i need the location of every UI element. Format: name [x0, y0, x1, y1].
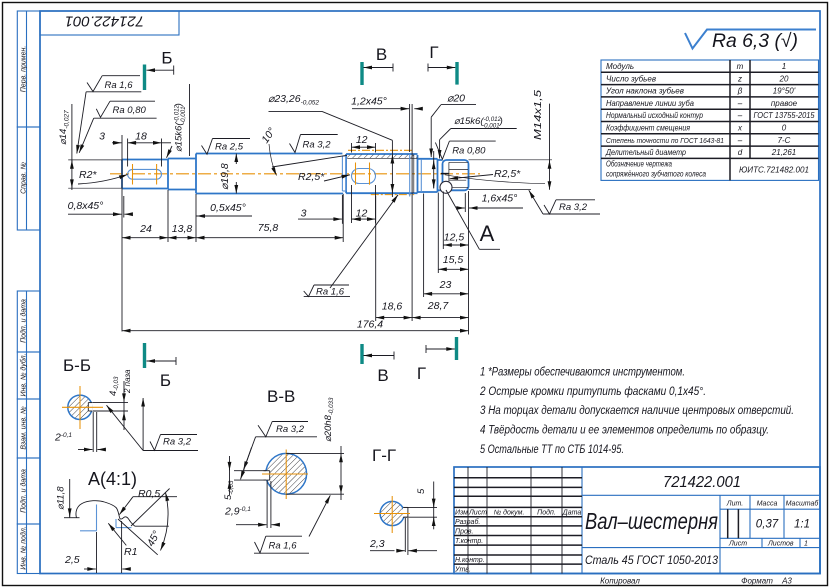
svg-text:Ra 3,2: Ra 3,2: [276, 424, 305, 435]
svg-text:R2,5*: R2,5*: [298, 171, 325, 183]
svg-text:7-С: 7-С: [778, 136, 791, 145]
svg-text:А3: А3: [781, 577, 792, 586]
svg-text:Г: Г: [429, 43, 438, 62]
svg-text:Лист: Лист: [468, 510, 487, 517]
svg-text:R0,5: R0,5: [138, 488, 160, 500]
svg-text:⌀20: ⌀20: [447, 93, 465, 105]
svg-text:Число зубьев: Число зубьев: [606, 74, 656, 83]
svg-text:721422.001: 721422.001: [663, 474, 741, 491]
svg-text:23: 23: [439, 279, 452, 291]
svg-text:Дата: Дата: [562, 510, 582, 517]
svg-text:Инв. № подл.: Инв. № подл.: [20, 526, 28, 569]
svg-text:R1: R1: [124, 546, 137, 558]
svg-text:Масса: Масса: [757, 501, 778, 508]
svg-text:75,8: 75,8: [258, 222, 279, 234]
svg-text:⌀11,8: ⌀11,8: [56, 486, 67, 510]
svg-text:⌀19,8: ⌀19,8: [219, 163, 231, 190]
svg-text:19°50': 19°50': [773, 87, 796, 96]
svg-text:Делительный диаметр: Делительный диаметр: [605, 148, 686, 157]
svg-text:2,5: 2,5: [64, 554, 80, 566]
svg-text:Формат: Формат: [741, 577, 773, 586]
svg-text:13,8: 13,8: [172, 223, 193, 235]
svg-text:β: β: [737, 87, 743, 96]
svg-text:Ra 1,6: Ra 1,6: [316, 287, 345, 298]
svg-text:1 *Размеры обеспечиваются инс: 1 *Размеры обеспечиваются инструментом.: [480, 367, 685, 379]
svg-text:15,5: 15,5: [443, 254, 464, 266]
svg-text:m: m: [737, 62, 744, 71]
svg-text:0: 0: [782, 124, 787, 133]
svg-text:Модуль: Модуль: [606, 62, 634, 71]
svg-text:ЮИТС.721482.001: ЮИТС.721482.001: [739, 166, 809, 175]
svg-text:R2*: R2*: [79, 169, 97, 181]
svg-text:1: 1: [782, 62, 786, 71]
svg-text:Б-Б: Б-Б: [63, 356, 91, 375]
svg-text:Вал–шестерня: Вал–шестерня: [585, 508, 718, 534]
svg-text:Н.контр.: Н.контр.: [455, 557, 485, 564]
svg-text:Угол наклона зубьев: Угол наклона зубьев: [605, 87, 684, 96]
svg-text:Ra 3,2: Ra 3,2: [303, 140, 332, 151]
svg-text:А: А: [480, 221, 495, 246]
svg-text:1,2х45°: 1,2х45°: [351, 96, 387, 108]
svg-text:Обозначение чертежа: Обозначение чертежа: [606, 160, 672, 169]
svg-text:Ra 1,6: Ra 1,6: [269, 541, 298, 552]
svg-text:Перв. примен.: Перв. примен.: [21, 46, 28, 93]
svg-text:–: –: [737, 136, 743, 145]
svg-text:5: 5: [416, 488, 427, 494]
svg-text:Изм: Изм: [455, 510, 468, 517]
svg-text:5 Остальные ТТ по СТБ 1014-95: 5 Остальные ТТ по СТБ 1014-95.: [480, 444, 624, 456]
svg-text:Ra 6,3 (√): Ra 6,3 (√): [712, 31, 798, 52]
svg-text:Б: Б: [161, 49, 172, 68]
svg-text:Справ. №: Справ. №: [21, 162, 28, 194]
svg-text:правое: правое: [771, 99, 798, 108]
svg-text:4 Твёрдость детали и ее элеме: 4 Твёрдость детали и ее элементов опреде…: [480, 425, 769, 437]
svg-text:Б: Б: [160, 371, 171, 390]
svg-text:Т.контр.: Т.контр.: [455, 538, 483, 545]
svg-text:сопряжённого зубчатого колеса: сопряжённого зубчатого колеса: [606, 169, 706, 178]
svg-text:0,8х45°: 0,8х45°: [68, 200, 104, 212]
svg-text:0,37: 0,37: [756, 519, 779, 531]
svg-text:2,3: 2,3: [369, 538, 385, 550]
svg-text:3: 3: [301, 208, 307, 220]
svg-text:Подп. и дата: Подп. и дата: [20, 469, 28, 513]
svg-text:3 На торцах детали допускаетс: 3 На торцах детали допускается наличие ц…: [480, 405, 794, 417]
svg-text:Г-Г: Г-Г: [372, 446, 396, 465]
svg-text:–: –: [737, 99, 743, 108]
svg-text:Ra 1,6: Ra 1,6: [105, 80, 134, 91]
svg-text:0,5х45°: 0,5х45°: [210, 202, 246, 214]
svg-text:Сталь 45 ГОСТ 1050-2013: Сталь 45 ГОСТ 1050-2013: [585, 555, 719, 567]
svg-text:Взам. инв. №: Взам. инв. №: [21, 406, 28, 450]
svg-text:Г: Г: [417, 364, 426, 383]
svg-text:1: 1: [804, 541, 808, 548]
svg-text:721422.001: 721422.001: [65, 13, 144, 30]
svg-text:№ докум.: № докум.: [494, 509, 525, 517]
svg-text:Ra 2,5: Ra 2,5: [215, 142, 244, 153]
svg-text:1,6х45°: 1,6х45°: [482, 193, 518, 205]
svg-text:–: –: [737, 111, 743, 120]
svg-text:В-В: В-В: [267, 387, 295, 406]
svg-text:Подп.: Подп.: [537, 509, 556, 517]
svg-text:Лист: Лист: [728, 541, 747, 548]
svg-text:ГОСТ 13755-2015: ГОСТ 13755-2015: [754, 111, 816, 120]
svg-text:Ra 3,2: Ra 3,2: [559, 202, 588, 213]
svg-text:z: z: [737, 74, 742, 83]
svg-text:Ra 3,2: Ra 3,2: [163, 437, 192, 448]
svg-text:Направление линии зуба: Направление линии зуба: [606, 99, 695, 108]
svg-text:Утв.: Утв.: [454, 567, 471, 574]
svg-text:2 Острые кромки притупить фас: 2 Острые кромки притупить фасками 0,1х45…: [479, 386, 706, 398]
svg-text:21,261: 21,261: [771, 148, 796, 157]
svg-text:Копировал: Копировал: [600, 577, 640, 586]
svg-text:Ra 0,80: Ra 0,80: [113, 105, 147, 116]
svg-text:12: 12: [356, 134, 368, 146]
svg-text:Нормальный исходный контур: Нормальный исходный контур: [606, 111, 703, 120]
svg-text:Лит.: Лит.: [726, 501, 743, 508]
svg-text:Ra 0,80: Ra 0,80: [452, 146, 486, 157]
svg-text:Степень точности по ГОСТ 1643-: Степень точности по ГОСТ 1643-81: [606, 136, 724, 145]
svg-text:Разраб.: Разраб.: [455, 518, 480, 526]
svg-text:3: 3: [99, 131, 105, 143]
svg-text:12: 12: [356, 208, 368, 220]
svg-text:M14х1,5: M14х1,5: [532, 90, 544, 140]
svg-text:2 паза: 2 паза: [123, 369, 132, 394]
svg-text:20: 20: [779, 74, 789, 83]
svg-text:28,7: 28,7: [427, 300, 450, 312]
svg-text:176,4: 176,4: [357, 319, 383, 331]
svg-text:R2,5*: R2,5*: [494, 168, 521, 180]
svg-text:Пров.: Пров.: [455, 529, 474, 536]
svg-text:d: d: [738, 148, 743, 157]
svg-text:А(4:1): А(4:1): [88, 469, 137, 489]
svg-text:12,5: 12,5: [444, 232, 465, 244]
svg-text:24: 24: [139, 223, 152, 235]
svg-text:В: В: [376, 45, 387, 64]
svg-text:Подп. и дата: Подп. и дата: [20, 299, 28, 343]
svg-text:В: В: [377, 366, 388, 385]
svg-text:Коэффициент смещения: Коэффициент смещения: [606, 124, 691, 133]
svg-text:Листов: Листов: [767, 541, 794, 548]
svg-text:Инв. № дубл.: Инв. № дубл.: [20, 353, 28, 396]
svg-text:18: 18: [135, 131, 147, 143]
svg-text:1:1: 1:1: [794, 519, 810, 531]
svg-text:18,6: 18,6: [382, 301, 403, 313]
svg-text:Масштаб: Масштаб: [786, 500, 820, 508]
